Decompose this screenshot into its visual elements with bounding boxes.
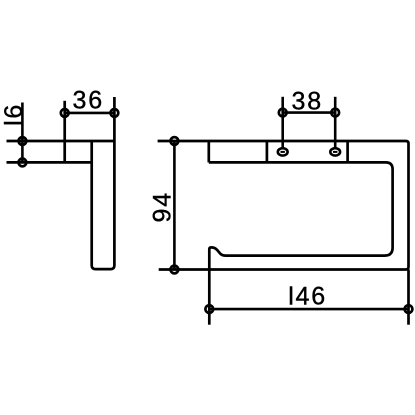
node: left screw hole slot [281,151,285,153]
wire: 36 dimension line [65,112,115,115]
wire: plate left edge merged with 36-dim left extension line [63,101,66,163]
wire: 146-dim right extension line [407,270,410,325]
node: 38-dim left terminator circle [279,109,287,117]
wire: plate left end vertical [207,141,210,162]
node: 146-dim left terminator circle [205,305,213,313]
wire: 94 dimension line [173,141,176,270]
wire: outer outline of holder (top edge, right edge, bottom edge) with 94-dim extensions [158,141,409,270]
node: 36-dim right terminator circle [111,109,119,117]
node: 94-dim bottom terminator circle [171,266,179,274]
node: 16-dim top terminator circle [19,137,27,145]
svg-text:36: 36 [72,87,103,115]
node: 94-dim top terminator circle [171,137,179,145]
wire: 146-dim left extension line [208,270,211,325]
wire: top edge of plate (side view) merged with 16-dim upper extension line [7,140,115,143]
svg-text:94: 94 [148,191,176,222]
svg-text:l6: l6 [0,103,28,126]
wire: inner outline of holder with bottom-left hook [209,162,393,269]
svg-text:l46: l46 [288,283,327,311]
wire: wall plate right edge vertical [346,141,349,162]
node: 36-dim left terminator circle [61,109,69,117]
wire: 38-dim left extension line down to screw hole [281,97,284,148]
wire: 38-dim right extension line down to screw hole [334,97,337,148]
node: left screw hole [278,148,288,155]
wire: bottom edge of plate (side view) merged with 16-dim lower extension line [7,161,92,164]
node: 16-dim bottom terminator circle [19,159,27,167]
wire: hanging arm outline (side view) [92,141,115,269]
wire: 146 dimension line [209,308,408,311]
wire: wall plate left edge vertical [266,141,269,162]
node: 38-dim right terminator circle [331,109,339,117]
node: 146-dim right terminator circle [405,305,413,313]
wire: 38 dimension line [283,111,336,114]
node: right screw hole slot [333,151,337,153]
svg-text:38: 38 [291,87,322,115]
wire: 36-dim right extension line [113,97,116,141]
node: right screw hole [330,148,340,155]
wire: 16 dimension line [21,103,24,163]
